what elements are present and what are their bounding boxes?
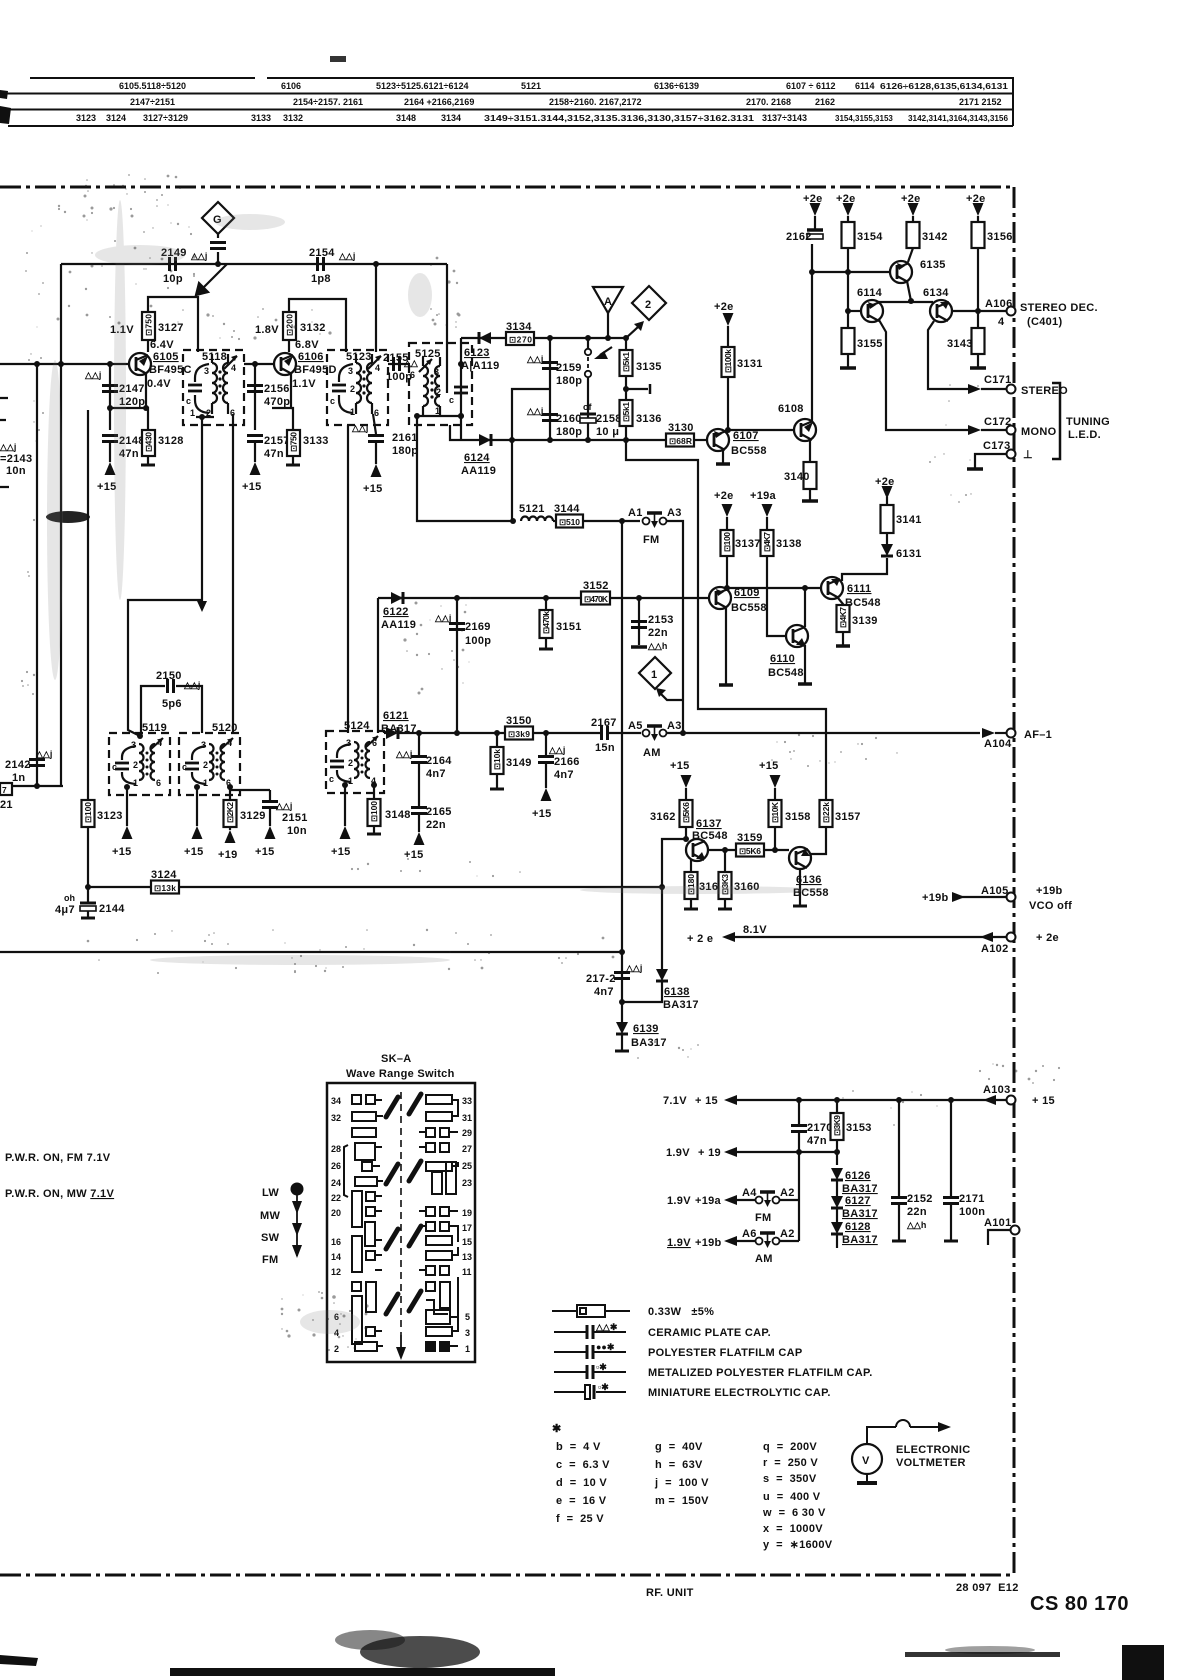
svg-text:m = 150V: m = 150V [655, 1495, 709, 1507]
svg-text:5118: 5118 [202, 351, 227, 363]
svg-text:⊡2K2: ⊡2K2 [225, 802, 235, 823]
svg-text:+2e: +2e [714, 301, 734, 313]
svg-text:⊡100: ⊡100 [83, 802, 93, 823]
svg-text:22: 22 [331, 1193, 341, 1203]
svg-text:⊡5k1: ⊡5k1 [621, 402, 631, 422]
svg-text:2170. 2168: 2170. 2168 [746, 97, 791, 107]
resistor 3144 [553, 520, 556, 522]
svg-text:27: 27 [462, 1144, 472, 1154]
svg-text:1.9V: 1.9V [666, 1147, 690, 1159]
svg-text:23: 23 [462, 1178, 472, 1188]
terminal A104 AF-1 [982, 728, 995, 738]
svg-text:+15: +15 [404, 849, 424, 861]
svg-text:5121: 5121 [519, 503, 545, 515]
power +15 below 2157 [250, 462, 261, 475]
wire collector bus y=588 to 6111 [727, 587, 822, 589]
transistor Q6114 [861, 300, 883, 322]
wire AM switch to A104 [666, 732, 980, 734]
svg-text:3135: 3135 [636, 361, 662, 373]
svg-text:3134: 3134 [506, 321, 532, 333]
svg-text:MINIATURE ELECTROLYTIC CAP.: MINIATURE ELECTROLYTIC CAP. [648, 1387, 831, 1399]
svg-text:6121: 6121 [383, 710, 409, 722]
svg-text:+15: +15 [184, 846, 204, 858]
svg-text:△△j: △△j [275, 801, 292, 811]
svg-text:⊡4K7: ⊡4K7 [838, 607, 848, 628]
svg-text:⊡5K6: ⊡5K6 [681, 802, 691, 823]
svg-text:32: 32 [331, 1113, 341, 1123]
svg-text:2154÷2157. 2161: 2154÷2157. 2161 [293, 97, 363, 107]
svg-text:△△j: △△j [548, 745, 565, 755]
svg-text:1.1V: 1.1V [292, 378, 316, 390]
svg-text:2159: 2159 [556, 362, 582, 374]
svg-text:2157: 2157 [264, 435, 290, 447]
svg-text:VCO off: VCO off [1029, 900, 1072, 912]
svg-text:6: 6 [374, 408, 379, 418]
svg-text:6122: 6122 [383, 606, 409, 618]
svg-text:A105: A105 [981, 885, 1009, 897]
svg-text:3153: 3153 [846, 1122, 872, 1134]
svg-text:+19: +19 [218, 849, 238, 861]
svg-text:2162: 2162 [786, 231, 812, 243]
svg-text:+ 2 e: + 2 e [687, 933, 713, 945]
svg-text:A|A119: A|A119 [461, 360, 500, 372]
svg-text:10p: 10p [163, 273, 183, 285]
wire 5125 bottom to coil 5121 [417, 416, 513, 521]
svg-text:6131: 6131 [896, 548, 922, 560]
svg-text:6136÷6139: 6136÷6139 [654, 81, 699, 91]
svg-text:BA317: BA317 [842, 1208, 878, 1220]
wire 6109 collector up [726, 556, 728, 588]
capacitor 2171 [950, 1100, 952, 1196]
svg-text:3: 3 [346, 738, 351, 748]
svg-text:AM: AM [643, 747, 661, 759]
+19 line [724, 1147, 737, 1157]
svg-text:47n: 47n [264, 448, 284, 460]
svg-text:△△✱: △△✱ [595, 1322, 618, 1332]
diode 6124 AA119 [461, 439, 667, 441]
svg-text:+ 15: + 15 [1032, 1095, 1055, 1107]
resistor 3132 [283, 312, 296, 340]
svg-text:6108: 6108 [778, 403, 804, 415]
svg-text:+15: +15 [112, 846, 132, 858]
svg-text:16: 16 [331, 1237, 341, 1247]
capacitor 2156 [247, 386, 263, 392]
svg-text:BC558: BC558 [731, 602, 767, 614]
svg-text:2: 2 [350, 384, 355, 394]
svg-text:3133: 3133 [303, 435, 329, 447]
svg-text:3128: 3128 [158, 435, 184, 447]
svg-text:+15: +15 [670, 760, 690, 772]
svg-text:+15: +15 [97, 481, 117, 493]
svg-text:14: 14 [331, 1252, 341, 1262]
svg-text:3123: 3123 [97, 810, 123, 822]
wire x=88 long vertical [87, 410, 89, 800]
svg-text:▫✱: ▫✱ [596, 1362, 607, 1372]
svg-text:AM: AM [755, 1253, 773, 1265]
svg-text:⊡3k9: ⊡3k9 [508, 729, 530, 739]
svg-text:5: 5 [465, 1312, 470, 1322]
svg-text:c: c [329, 774, 334, 784]
test stub [626, 388, 648, 390]
svg-text:6106: 6106 [281, 81, 301, 91]
svg-text:3152: 3152 [583, 580, 609, 592]
node G diamond [202, 202, 234, 264]
svg-text:6105.5118÷5120: 6105.5118÷5120 [119, 81, 186, 91]
svg-text:3136: 3136 [636, 413, 662, 425]
svg-text:A3: A3 [667, 720, 682, 732]
svg-text:c: c [449, 395, 454, 405]
svg-text:3159: 3159 [737, 832, 763, 844]
svg-text:3154,3155,3153: 3154,3155,3153 [835, 114, 893, 123]
svg-text:FM: FM [262, 1254, 278, 1266]
resistor 3135 [625, 338, 627, 350]
svg-text:x = 1000V: x = 1000V [763, 1523, 823, 1535]
svg-text:6107: 6107 [733, 430, 759, 442]
capacitor 2147 [102, 386, 118, 392]
svg-text:6105: 6105 [153, 351, 179, 363]
svg-text:22n: 22n [426, 819, 446, 831]
svg-text:2167: 2167 [591, 717, 617, 729]
svg-text:CS 80 170: CS 80 170 [1030, 1593, 1129, 1615]
svg-text:c: c [186, 396, 191, 406]
svg-text:180p: 180p [392, 445, 418, 457]
capacitor 2167 series [602, 726, 608, 740]
svg-text:SW: SW [261, 1232, 280, 1244]
wire from 6121 up [377, 598, 379, 733]
svg-text:A2: A2 [780, 1187, 795, 1199]
svg-text:+ 19: + 19 [698, 1147, 721, 1159]
svg-text:3123: 3123 [76, 113, 96, 123]
svg-text:CERAMIC PLATE CAP.: CERAMIC PLATE CAP. [648, 1327, 771, 1339]
svg-text:BF495D: BF495D [294, 364, 337, 376]
switch A1-A3 FM [643, 518, 667, 525]
diode 6139 [616, 1022, 628, 1034]
svg-text:+15: +15 [242, 481, 262, 493]
svg-text:28 097 E12: 28 097 E12 [956, 1582, 1019, 1594]
capacitor 2155 series [388, 363, 410, 365]
resistor 3149 [496, 733, 498, 747]
svg-text:3142: 3142 [922, 231, 948, 243]
wire 6110 emitter down [804, 645, 806, 683]
wire x=461 detector column [460, 338, 462, 440]
svg-text:+15: +15 [255, 846, 275, 858]
wire 6135 base from 2162 node [812, 271, 890, 273]
power +15 below 2148 [105, 462, 116, 475]
diode 6131 [881, 544, 893, 556]
svg-text:⊡100k: ⊡100k [723, 349, 733, 373]
svg-text:2: 2 [203, 760, 208, 770]
wire x=447 rail drop [446, 264, 448, 393]
svg-text:L.E.D.: L.E.D. [1068, 429, 1101, 441]
svg-text:⊡100: ⊡100 [722, 532, 732, 552]
terminal A101 [1011, 1226, 1020, 1235]
resistor 3133 [291, 408, 293, 430]
svg-text:4: 4 [998, 316, 1005, 328]
svg-text:C171: C171 [984, 374, 1012, 386]
top border [0, 186, 1014, 189]
wire detector out elbow [626, 440, 826, 800]
svg-text:+15: +15 [331, 846, 351, 858]
IF can T5118 [183, 350, 244, 425]
wire 6136 emitter to 3157 [811, 827, 826, 854]
svg-text:of: of [583, 402, 592, 412]
arrow into diamond 1 [661, 694, 683, 700]
svg-text:3134: 3134 [441, 113, 461, 123]
svg-text:217-2: 217-2 [586, 973, 616, 985]
capacitor 2158 electrolytic [587, 407, 589, 440]
wire rail drop to 5123 pin4 [375, 264, 377, 352]
svg-text:6: 6 [156, 778, 161, 788]
svg-text:P.W.R. ON, FM 7.1V: P.W.R. ON, FM 7.1V [5, 1152, 111, 1164]
svg-text:+19a: +19a [750, 490, 777, 502]
svg-text:w = 6 30 V: w = 6 30 V [762, 1507, 826, 1519]
svg-text:5121: 5121 [521, 81, 541, 91]
svg-text:4n7: 4n7 [426, 768, 446, 780]
svg-text:1: 1 [133, 778, 138, 788]
wire emitter 6106 down [272, 373, 291, 408]
svg-text:1p8: 1p8 [311, 273, 331, 285]
transistor Q6134 [930, 300, 952, 322]
capacitor 2160 [549, 389, 551, 440]
svg-text:AA119: AA119 [461, 465, 496, 477]
wire base node 6106 [244, 363, 274, 365]
svg-text:3: 3 [201, 740, 206, 750]
svg-text:△△j: △△j [183, 680, 200, 690]
svg-text:1.8V: 1.8V [255, 324, 279, 336]
wire y=598 [378, 597, 709, 599]
svg-text:MW: MW [260, 1210, 280, 1222]
svg-text:3142,3141,3164,3143,3156: 3142,3141,3164,3143,3156 [908, 114, 1009, 123]
svg-text:oh: oh [64, 893, 75, 903]
svg-text:d = 10 V: d = 10 V [556, 1477, 607, 1489]
svg-text:c: c [182, 762, 187, 772]
transistor Q6136 BC558 [789, 847, 811, 869]
svg-text:△△j: △△j [190, 251, 207, 261]
svg-text:1: 1 [435, 406, 440, 416]
svg-text:1: 1 [350, 407, 355, 417]
slashes [386, 1094, 421, 1314]
svg-text:1: 1 [203, 778, 208, 788]
svg-text:47n: 47n [807, 1135, 827, 1147]
svg-text:5123÷5125.6121÷6124: 5123÷5125.6121÷6124 [376, 81, 468, 91]
svg-text:5p6: 5p6 [162, 698, 182, 710]
transistor Q6105 [129, 353, 151, 375]
svg-text:100p: 100p [465, 635, 491, 647]
transistor Q6109 BC558 [709, 587, 731, 609]
svg-text:2165: 2165 [426, 806, 452, 818]
junction dots on rail [215, 261, 221, 267]
svg-text:⊡68R: ⊡68R [669, 436, 692, 446]
svg-text:6138: 6138 [664, 986, 690, 998]
svg-text:5120: 5120 [212, 722, 238, 734]
wire AM det line y=733 [398, 732, 600, 734]
svg-text:⊡13k: ⊡13k [154, 883, 176, 893]
svg-text:2153: 2153 [648, 614, 674, 626]
resistor 3148 [373, 785, 375, 799]
wire 5120 pin1 to +15 [196, 787, 198, 826]
capacitor 2165 [418, 763, 420, 806]
svg-text:⊡470k: ⊡470k [541, 611, 551, 634]
svg-text:u = 400 V: u = 400 V [763, 1491, 821, 1503]
resistor 3127 [142, 312, 155, 340]
svg-text:BC558: BC558 [731, 445, 767, 457]
svg-text:MONO: MONO [1021, 426, 1057, 438]
svg-text:s = 350V: s = 350V [763, 1473, 817, 1485]
svg-text:SK–A: SK–A [381, 1053, 412, 1065]
svg-text:A103: A103 [983, 1084, 1011, 1096]
capacitor 2169 [456, 598, 458, 733]
scan smudges [0, 511, 1164, 1680]
svg-text:BF495C: BF495C [149, 364, 192, 376]
svg-text:6128: 6128 [845, 1221, 871, 1233]
capacitor 2152 [898, 1100, 900, 1196]
svg-text:3130: 3130 [668, 422, 694, 434]
svg-text:470p: 470p [264, 396, 290, 408]
svg-text:METALIZED POLYESTER FLATFILM: METALIZED POLYESTER FLATFILM CAP. [648, 1367, 873, 1379]
svg-text:g = 40V: g = 40V [655, 1441, 703, 1453]
svg-text:6137: 6137 [696, 818, 722, 830]
svg-text:2: 2 [645, 299, 651, 311]
resistor 3153 [836, 1100, 838, 1113]
diode 6123 AA119 [479, 332, 491, 344]
arrow pointing at trimmer [600, 347, 612, 355]
svg-text:+2e: +2e [714, 490, 734, 502]
svg-text:12: 12 [331, 1267, 341, 1277]
svg-text:FM: FM [643, 534, 659, 546]
svg-text:4μ7: 4μ7 [55, 904, 75, 916]
wire detector top y=338 [461, 337, 626, 339]
svg-text:e = 16 V: e = 16 V [556, 1495, 607, 1507]
svg-text:j = 100 V: j = 100 V [654, 1477, 709, 1489]
svg-text:⊡100: ⊡100 [369, 801, 379, 822]
svg-text:⊡510: ⊡510 [559, 517, 580, 527]
svg-text:3131: 3131 [737, 358, 763, 370]
svg-text:BA317: BA317 [842, 1183, 878, 1195]
capacitor 2149 [170, 257, 176, 271]
svg-text:⊡470K: ⊡470K [584, 594, 609, 604]
wire 5124 pin1 to +15 [344, 785, 346, 826]
svg-text:=2143: =2143 [0, 453, 32, 465]
svg-text:3148: 3148 [385, 809, 411, 821]
svg-text:V: V [862, 1455, 870, 1467]
svg-text:+ 2e: + 2e [1036, 932, 1059, 944]
svg-text:2169: 2169 [465, 621, 491, 633]
svg-text:2: 2 [133, 760, 138, 770]
svg-text:3: 3 [434, 367, 439, 377]
svg-text:100n: 100n [959, 1206, 985, 1218]
svg-text:0.33W ±5%: 0.33W ±5% [648, 1306, 714, 1318]
svg-text:6126: 6126 [845, 1170, 871, 1182]
svg-text:BC548: BC548 [692, 830, 728, 842]
svg-text:c: c [112, 762, 117, 772]
wire 5123 to 5124 long vertical [347, 425, 349, 733]
svg-text:11: 11 [462, 1267, 472, 1277]
svg-text:h = 63V: h = 63V [655, 1459, 703, 1471]
svg-text:△△j: △△j [35, 749, 52, 759]
svg-text:c = 6.3 V: c = 6.3 V [556, 1459, 610, 1471]
svg-text:+19b: +19b [1036, 885, 1063, 897]
svg-text:2151: 2151 [282, 812, 308, 824]
wire 5125 pin1 down to diode 6124 [450, 425, 461, 440]
svg-text:6.8V: 6.8V [295, 339, 319, 351]
svg-text:6114: 6114 [857, 287, 883, 299]
svg-text:3143: 3143 [947, 338, 973, 350]
svg-text:VOLTMETER: VOLTMETER [896, 1457, 966, 1469]
svg-text:A5: A5 [628, 720, 643, 732]
svg-text:A102: A102 [981, 943, 1009, 955]
svg-text:6106: 6106 [298, 351, 324, 363]
svg-text:△△j: △△j [625, 963, 642, 973]
svg-text:▫✱: ▫✱ [598, 1382, 609, 1392]
svg-text:3151: 3151 [556, 621, 582, 633]
resistor 3143 [977, 311, 979, 328]
switch contacts right [419, 1095, 458, 1351]
svg-text:3124: 3124 [151, 869, 177, 881]
svg-text:Wave Range Switch: Wave Range Switch [346, 1068, 455, 1080]
svg-text:3127: 3127 [158, 322, 184, 334]
wire down from 2170 bottom to switches [798, 1152, 800, 1241]
capacitor 2162 electrolytic [807, 228, 823, 232]
inductor 5121 [521, 517, 553, 522]
node diamond 1 [639, 657, 671, 689]
trimmer tap with circles [585, 338, 591, 407]
svg-text:BA317: BA317 [663, 999, 699, 1011]
svg-text:A104: A104 [984, 738, 1012, 750]
svg-text:△△h: △△h [906, 1220, 926, 1230]
resistor 3150 in line [505, 727, 533, 740]
svg-text:180p: 180p [556, 375, 582, 387]
transistor Q6107 BC558 [707, 429, 729, 451]
svg-text:13: 13 [462, 1252, 472, 1262]
svg-text:4: 4 [231, 363, 236, 373]
svg-text:3162: 3162 [650, 811, 676, 823]
svg-text:3157: 3157 [835, 811, 861, 823]
svg-text:✱: ✱ [552, 1423, 562, 1435]
transistor Q6110 BC548 [786, 625, 808, 647]
svg-text:q = 200V: q = 200V [763, 1441, 817, 1453]
svg-text:10n: 10n [287, 825, 307, 837]
capacitor below G [210, 243, 226, 249]
svg-text:5125: 5125 [415, 348, 441, 360]
svg-text:2156: 2156 [264, 383, 290, 395]
svg-text:6135: 6135 [920, 259, 946, 271]
svg-text:●●✱: ●●✱ [596, 1342, 615, 1352]
svg-text:A2: A2 [780, 1228, 795, 1240]
svg-text:3149÷3151.3144,3152,3135.3136,: 3149÷3151.3144,3152,3135.3136,3130,3157÷… [484, 114, 755, 123]
svg-text:2161: 2161 [392, 432, 418, 444]
resistor 3152 [581, 592, 610, 605]
svg-text:1.9V: 1.9V [667, 1237, 691, 1249]
svg-text:33: 33 [462, 1096, 472, 1106]
svg-text:2160: 2160 [556, 413, 582, 425]
IF can T5120 [179, 733, 240, 795]
svg-text:1: 1 [348, 776, 353, 786]
svg-text:3140: 3140 [784, 471, 810, 483]
svg-text:2142: 2142 [5, 759, 31, 771]
svg-text:+15: +15 [532, 808, 552, 820]
svg-text:20: 20 [331, 1208, 341, 1218]
svg-text:A6: A6 [742, 1228, 757, 1240]
svg-text:+ 15: + 15 [695, 1095, 718, 1107]
wire 6107 emitter stub [722, 450, 724, 463]
svg-text:3155: 3155 [857, 338, 883, 350]
svg-text:2158: 2158 [596, 413, 622, 425]
svg-text:22n: 22n [907, 1206, 927, 1218]
svg-text:2166: 2166 [554, 756, 580, 768]
svg-text:6123: 6123 [464, 347, 490, 359]
svg-text:2170: 2170 [807, 1122, 833, 1134]
svg-text:15: 15 [462, 1237, 472, 1247]
